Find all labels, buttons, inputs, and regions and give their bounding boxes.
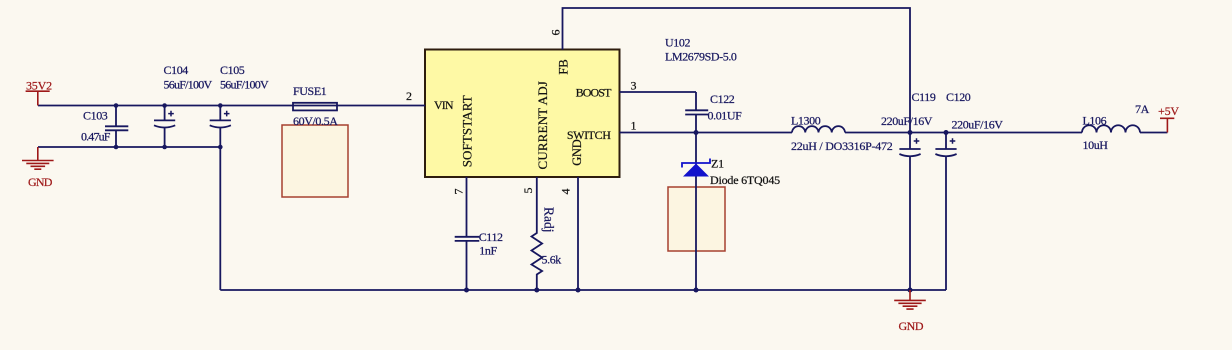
svg-text:5.6k: 5.6k xyxy=(542,253,562,267)
svg-text:60V/0.5A: 60V/0.5A xyxy=(293,114,338,128)
svg-text:GND: GND xyxy=(570,139,584,165)
svg-text:Z1: Z1 xyxy=(711,157,724,171)
svg-text:C122: C122 xyxy=(710,92,735,106)
svg-text:C119: C119 xyxy=(912,90,936,104)
svg-text:1nF: 1nF xyxy=(479,243,497,257)
svg-text:0.47uF: 0.47uF xyxy=(81,130,111,144)
svg-text:56uF/100V: 56uF/100V xyxy=(220,77,269,91)
svg-text:BOOST: BOOST xyxy=(576,85,612,99)
svg-text:220uF/16V: 220uF/16V xyxy=(952,117,1004,131)
svg-text:FB: FB xyxy=(556,59,571,75)
svg-text:6: 6 xyxy=(549,30,563,36)
svg-text:7: 7 xyxy=(452,189,466,195)
svg-text:C105: C105 xyxy=(220,63,245,77)
svg-text:Diode 6TQ045: Diode 6TQ045 xyxy=(710,173,780,187)
svg-text:SOFTSTART: SOFTSTART xyxy=(460,95,475,167)
svg-text:22uH / DO3316P-472: 22uH / DO3316P-472 xyxy=(791,139,893,153)
svg-text:4: 4 xyxy=(559,189,573,195)
svg-text:10uH: 10uH xyxy=(1083,138,1109,152)
svg-text:CURRENT ADJ: CURRENT ADJ xyxy=(535,81,550,169)
svg-text:56uF/100V: 56uF/100V xyxy=(164,77,213,91)
svg-text:GND: GND xyxy=(899,319,924,333)
svg-text:7A: 7A xyxy=(1135,102,1150,116)
svg-text:C103: C103 xyxy=(83,109,108,123)
svg-text:C112: C112 xyxy=(479,230,503,244)
svg-text:L106: L106 xyxy=(1083,113,1107,127)
svg-text:1: 1 xyxy=(631,119,637,133)
svg-text:0.01UF: 0.01UF xyxy=(708,108,743,122)
svg-text:VIN: VIN xyxy=(434,98,454,112)
svg-text:Radj: Radj xyxy=(542,207,557,233)
svg-text:5: 5 xyxy=(521,188,535,194)
svg-text:U102: U102 xyxy=(665,36,690,50)
svg-text:L1300: L1300 xyxy=(791,113,821,127)
svg-text:3: 3 xyxy=(631,78,637,92)
svg-text:35V2: 35V2 xyxy=(26,78,52,92)
svg-text:+5V: +5V xyxy=(1158,104,1179,118)
svg-text:FUSE1: FUSE1 xyxy=(293,84,327,98)
svg-text:220uF/16V: 220uF/16V xyxy=(881,114,933,128)
svg-text:LM2679SD-5.0: LM2679SD-5.0 xyxy=(665,50,737,64)
svg-text:C120: C120 xyxy=(946,90,971,104)
svg-text:C104: C104 xyxy=(164,63,189,77)
svg-text:GND: GND xyxy=(28,175,53,189)
svg-text:2: 2 xyxy=(406,89,412,103)
